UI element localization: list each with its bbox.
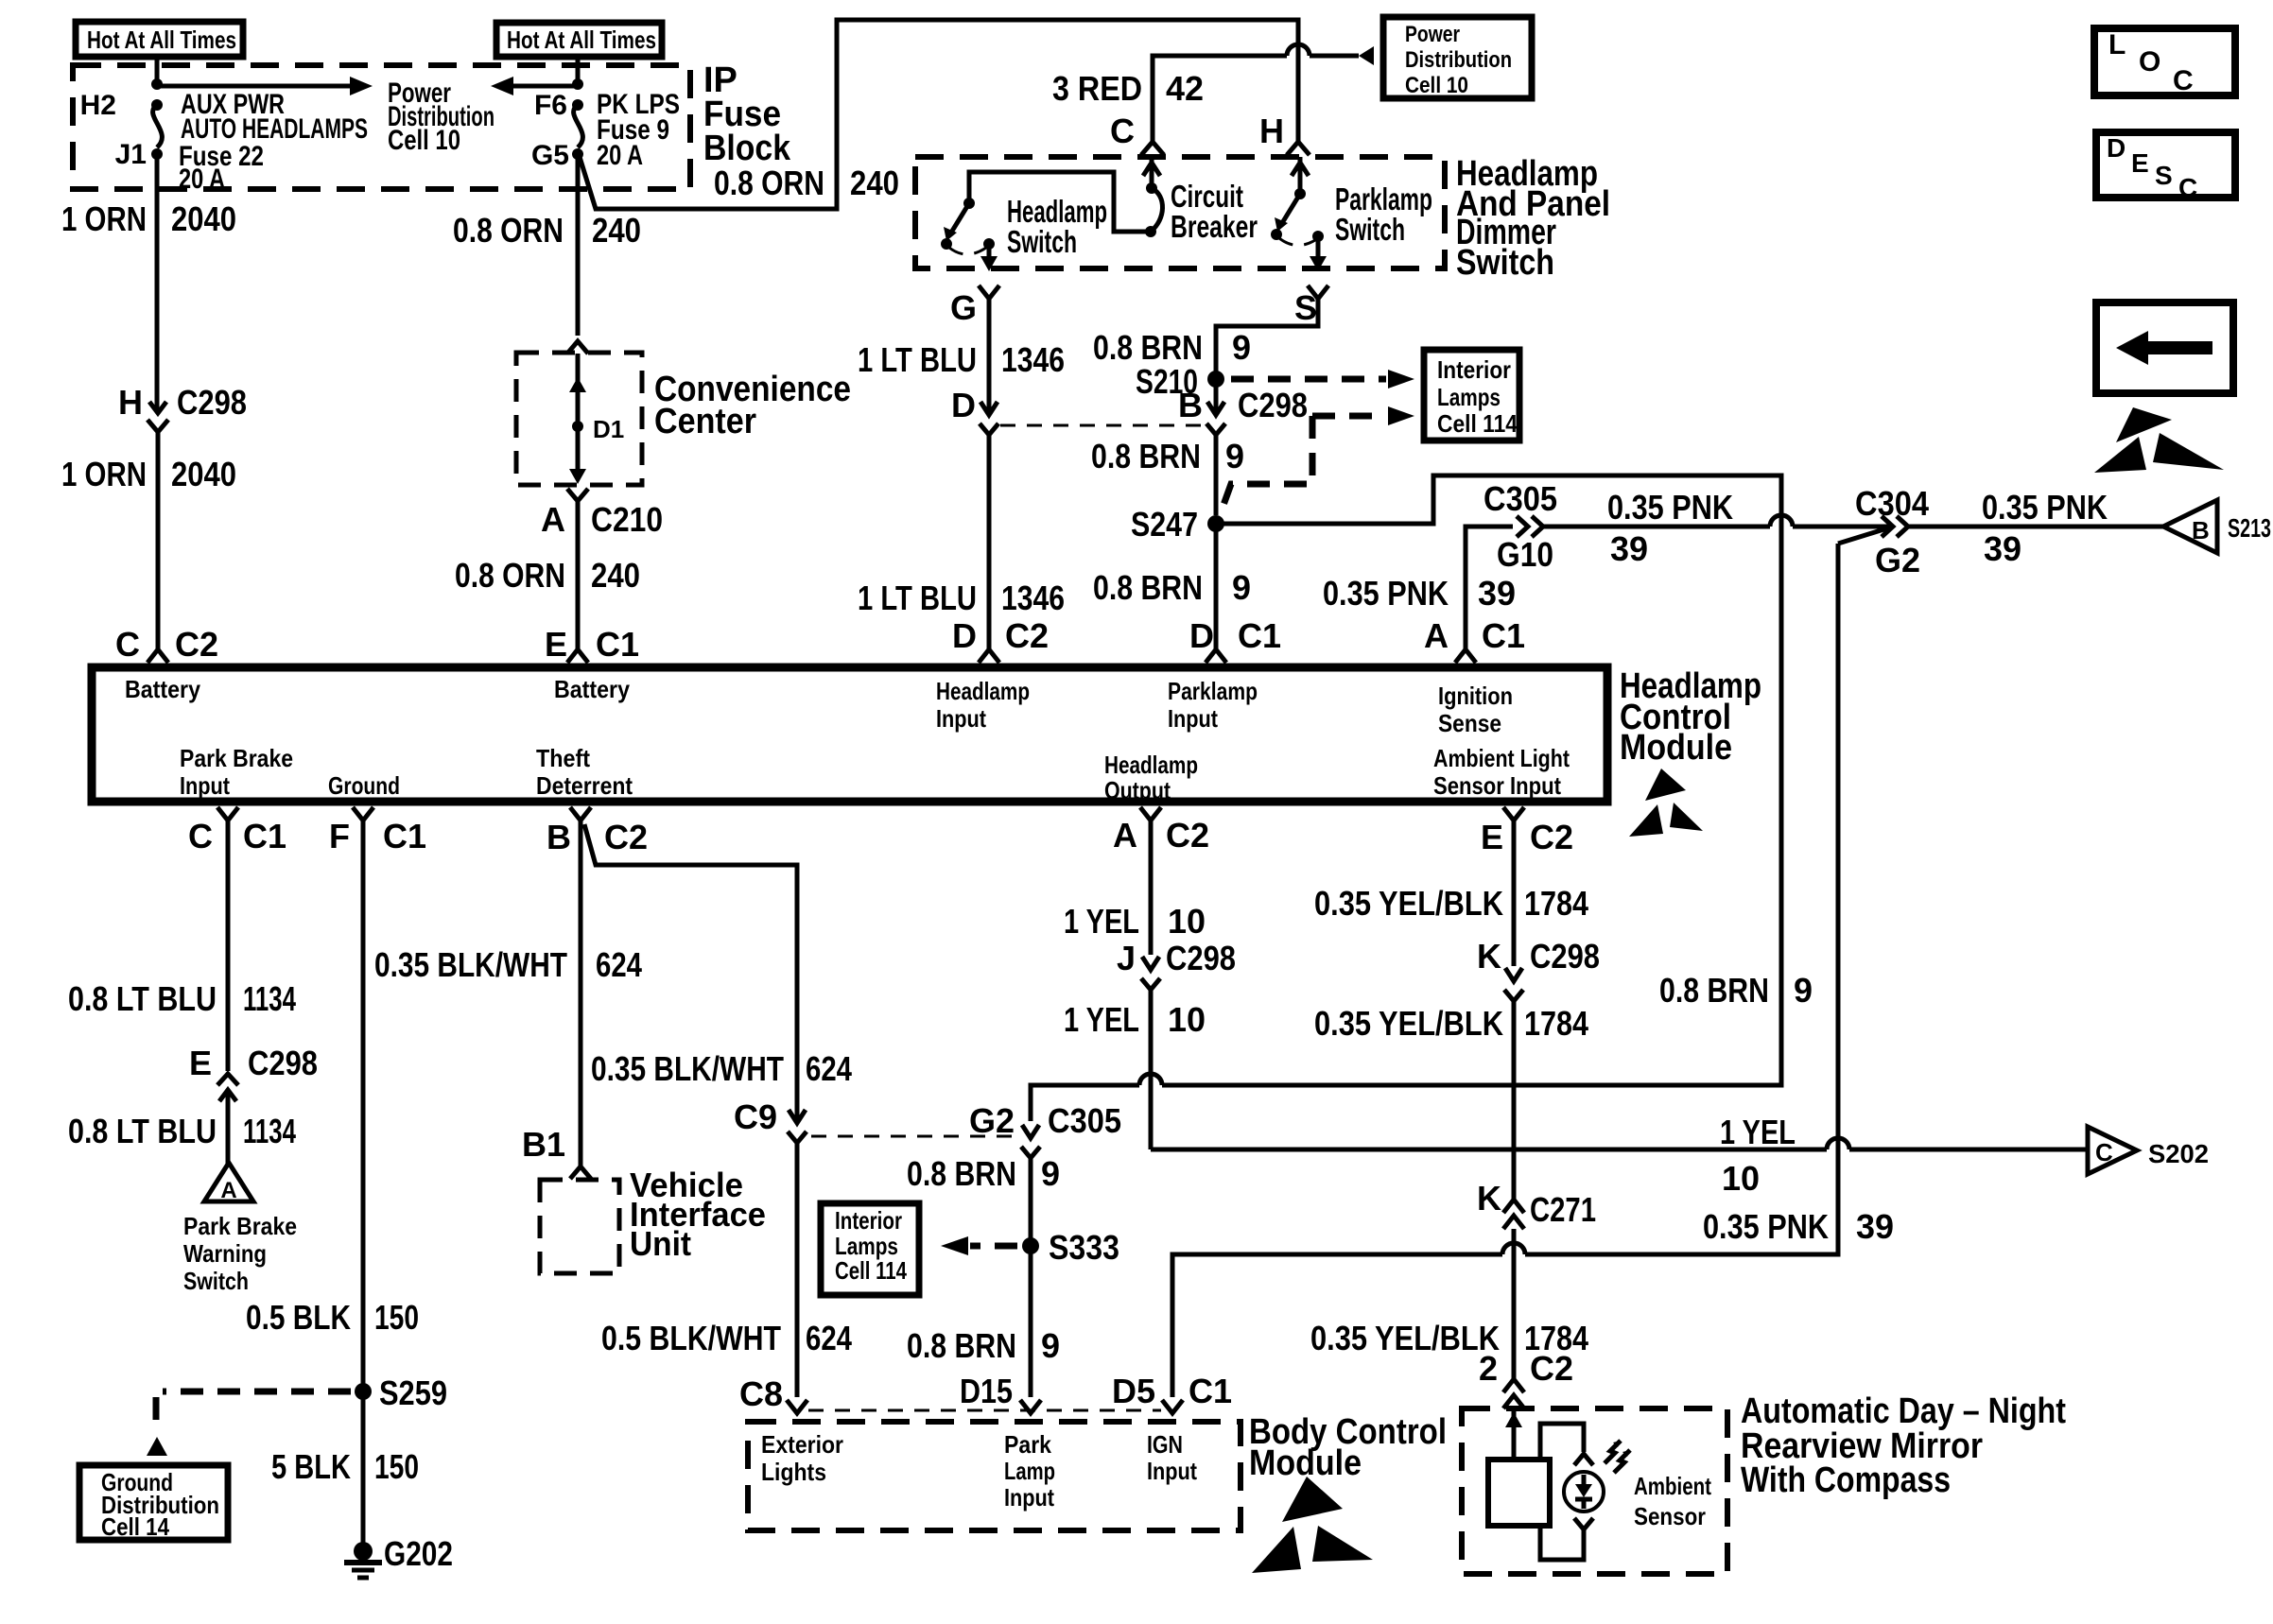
svg-text:Headlamp: Headlamp xyxy=(1104,751,1198,779)
svg-text:C1: C1 xyxy=(1238,616,1281,655)
svg-text:H: H xyxy=(118,383,143,422)
svg-text:J1: J1 xyxy=(115,139,147,170)
svg-text:20 A: 20 A xyxy=(597,140,643,171)
svg-text:9: 9 xyxy=(1794,971,1813,1010)
svg-text:G5: G5 xyxy=(531,140,569,171)
svg-text:Ground: Ground xyxy=(328,771,400,800)
svg-text:Breaker: Breaker xyxy=(1171,209,1258,244)
svg-text:0.35 BLK/WHT: 0.35 BLK/WHT xyxy=(591,1049,784,1088)
svg-text:10: 10 xyxy=(1168,902,1206,941)
svg-text:D: D xyxy=(952,616,977,655)
svg-text:1 ORN: 1 ORN xyxy=(61,455,147,493)
svg-text:Cell 14: Cell 14 xyxy=(101,1512,169,1541)
svg-text:Park Brake: Park Brake xyxy=(180,744,293,772)
svg-text:C1: C1 xyxy=(596,625,639,664)
svg-text:0.35 YEL/BLK: 0.35 YEL/BLK xyxy=(1314,1004,1503,1043)
svg-text:0.35 PNK: 0.35 PNK xyxy=(1703,1207,1829,1246)
svg-text:Input: Input xyxy=(180,771,230,800)
svg-text:Input: Input xyxy=(1168,704,1218,733)
svg-text:5 BLK: 5 BLK xyxy=(271,1447,351,1486)
svg-text:K: K xyxy=(1477,937,1501,976)
svg-text:Input: Input xyxy=(1004,1483,1054,1512)
svg-text:0.8 ORN: 0.8 ORN xyxy=(453,211,564,250)
svg-text:39: 39 xyxy=(1478,574,1516,613)
svg-text:624: 624 xyxy=(806,1049,852,1088)
svg-text:S247: S247 xyxy=(1131,505,1198,544)
svg-text:Hot At All Times: Hot At All Times xyxy=(87,26,236,54)
svg-text:G202: G202 xyxy=(384,1534,453,1573)
svg-text:Park Brake: Park Brake xyxy=(183,1212,297,1240)
svg-text:0.35 PNK: 0.35 PNK xyxy=(1607,488,1733,527)
svg-text:S213: S213 xyxy=(2228,513,2271,543)
svg-text:624: 624 xyxy=(596,945,642,984)
svg-text:Switch: Switch xyxy=(183,1267,249,1295)
svg-text:9: 9 xyxy=(1041,1154,1060,1193)
svg-text:2040: 2040 xyxy=(171,455,236,493)
svg-text:0.8 ORN: 0.8 ORN xyxy=(714,164,824,202)
svg-text:G2: G2 xyxy=(1875,541,1920,579)
svg-text:Battery: Battery xyxy=(554,675,630,703)
svg-text:0.8 ORN: 0.8 ORN xyxy=(455,556,565,595)
svg-text:C1: C1 xyxy=(383,817,426,855)
svg-text:10: 10 xyxy=(1722,1159,1760,1198)
svg-text:G: G xyxy=(950,288,977,327)
svg-text:With Compass: With Compass xyxy=(1741,1460,1951,1500)
svg-text:Sensor: Sensor xyxy=(1634,1502,1706,1530)
svg-text:0.8 BRN: 0.8 BRN xyxy=(907,1154,1016,1193)
svg-text:O: O xyxy=(2139,46,2160,78)
svg-text:J: J xyxy=(1117,939,1136,977)
svg-text:0.8 LT BLU: 0.8 LT BLU xyxy=(68,1112,217,1150)
svg-text:Distribution: Distribution xyxy=(1405,47,1512,73)
svg-text:C: C xyxy=(2173,65,2194,96)
svg-text:1 YEL: 1 YEL xyxy=(1720,1113,1796,1151)
svg-text:Deterrent: Deterrent xyxy=(536,771,633,800)
svg-text:Interior: Interior xyxy=(1437,355,1511,384)
svg-text:C304: C304 xyxy=(1855,484,1929,523)
svg-text:Input: Input xyxy=(936,704,986,733)
svg-text:9: 9 xyxy=(1232,328,1251,367)
svg-text:B: B xyxy=(1178,386,1203,424)
svg-text:Ignition: Ignition xyxy=(1438,682,1513,710)
svg-text:C298: C298 xyxy=(1166,939,1236,977)
svg-text:Park: Park xyxy=(1004,1430,1051,1459)
svg-text:Switch: Switch xyxy=(1007,224,1077,259)
svg-text:1134: 1134 xyxy=(243,1112,296,1150)
svg-text:Cell 10: Cell 10 xyxy=(1405,73,1468,98)
svg-text:0.35 PNK: 0.35 PNK xyxy=(1982,488,2108,527)
svg-text:C2: C2 xyxy=(1166,816,1209,855)
svg-text:1784: 1784 xyxy=(1524,884,1588,923)
svg-text:Cell 10: Cell 10 xyxy=(388,125,460,156)
svg-text:Sense: Sense xyxy=(1438,709,1501,737)
svg-text:IGN: IGN xyxy=(1147,1430,1183,1459)
svg-text:0.35 BLK/WHT: 0.35 BLK/WHT xyxy=(374,945,567,984)
svg-text:C9: C9 xyxy=(734,1097,777,1136)
svg-text:9: 9 xyxy=(1232,568,1251,607)
svg-text:240: 240 xyxy=(592,211,641,250)
svg-text:C: C xyxy=(2178,173,2197,202)
svg-text:C210: C210 xyxy=(591,500,663,539)
svg-text:9: 9 xyxy=(1041,1326,1060,1365)
svg-text:9: 9 xyxy=(1225,437,1244,475)
svg-text:39: 39 xyxy=(1856,1207,1894,1246)
svg-text:Output: Output xyxy=(1104,776,1171,804)
svg-text:39: 39 xyxy=(1610,529,1648,568)
svg-text:2040: 2040 xyxy=(171,199,236,238)
svg-text:H2: H2 xyxy=(80,90,116,121)
svg-text:C: C xyxy=(188,817,213,855)
svg-text:Lamps: Lamps xyxy=(1437,383,1501,411)
svg-text:1346: 1346 xyxy=(1001,340,1065,379)
svg-text:0.8 BRN: 0.8 BRN xyxy=(1091,437,1201,475)
svg-text:C298: C298 xyxy=(177,383,247,422)
svg-text:240: 240 xyxy=(850,164,899,202)
svg-text:A: A xyxy=(1424,616,1449,655)
svg-text:Power: Power xyxy=(1405,22,1460,47)
svg-text:10: 10 xyxy=(1168,1000,1206,1039)
svg-text:Sensor Input: Sensor Input xyxy=(1433,771,1561,800)
svg-text:C2: C2 xyxy=(1530,1349,1573,1388)
svg-text:D15: D15 xyxy=(960,1372,1013,1410)
svg-text:Lights: Lights xyxy=(761,1458,826,1486)
svg-text:C305: C305 xyxy=(1484,479,1557,518)
svg-text:Cell 114: Cell 114 xyxy=(1437,409,1518,438)
svg-text:0.35 YEL/BLK: 0.35 YEL/BLK xyxy=(1314,884,1503,923)
svg-text:D: D xyxy=(2107,133,2126,163)
svg-text:Headlamp: Headlamp xyxy=(936,677,1030,705)
svg-text:42: 42 xyxy=(1166,69,1204,108)
svg-text:K: K xyxy=(1477,1179,1501,1218)
svg-text:Automatic Day – Night: Automatic Day – Night xyxy=(1741,1391,2066,1431)
svg-text:Switch: Switch xyxy=(1335,212,1405,247)
svg-text:1784: 1784 xyxy=(1524,1004,1588,1043)
svg-text:1 YEL: 1 YEL xyxy=(1064,1000,1139,1039)
svg-text:C: C xyxy=(2095,1138,2113,1166)
svg-text:C: C xyxy=(115,625,140,664)
svg-text:Ambient Light: Ambient Light xyxy=(1433,744,1570,772)
svg-text:1 ORN: 1 ORN xyxy=(61,199,147,238)
svg-text:C8: C8 xyxy=(739,1374,783,1413)
svg-text:2: 2 xyxy=(1479,1349,1498,1388)
svg-text:C1: C1 xyxy=(1189,1372,1232,1410)
svg-text:Module: Module xyxy=(1249,1443,1362,1483)
svg-text:1 YEL: 1 YEL xyxy=(1064,902,1139,941)
svg-text:E: E xyxy=(2131,148,2149,178)
svg-text:F6: F6 xyxy=(534,90,567,121)
svg-text:Warning: Warning xyxy=(183,1239,267,1268)
svg-text:A: A xyxy=(1113,816,1137,855)
svg-text:624: 624 xyxy=(806,1319,852,1357)
svg-text:D1: D1 xyxy=(593,415,624,443)
svg-text:C305: C305 xyxy=(1048,1101,1121,1140)
svg-text:E: E xyxy=(189,1044,212,1082)
svg-text:S333: S333 xyxy=(1049,1228,1119,1267)
svg-text:C2: C2 xyxy=(1005,616,1049,655)
svg-text:C2: C2 xyxy=(1530,818,1573,856)
svg-text:C298: C298 xyxy=(1530,937,1600,976)
svg-text:0.35 PNK: 0.35 PNK xyxy=(1323,574,1449,613)
svg-text:S259: S259 xyxy=(379,1373,447,1412)
svg-text:Switch: Switch xyxy=(1456,243,1554,283)
svg-text:0.5 BLK/WHT: 0.5 BLK/WHT xyxy=(601,1319,781,1357)
svg-text:39: 39 xyxy=(1984,529,2021,568)
svg-text:20 A: 20 A xyxy=(179,164,225,195)
svg-text:C298: C298 xyxy=(1238,386,1308,424)
svg-text:1134: 1134 xyxy=(243,979,296,1018)
svg-text:Parklamp: Parklamp xyxy=(1168,677,1258,705)
svg-text:150: 150 xyxy=(374,1298,419,1337)
svg-text:H: H xyxy=(1259,112,1284,150)
svg-text:L: L xyxy=(2108,29,2126,60)
svg-text:B: B xyxy=(2192,516,2210,544)
svg-text:1 LT BLU: 1 LT BLU xyxy=(858,340,977,379)
svg-text:Block: Block xyxy=(703,129,791,168)
svg-text:C2: C2 xyxy=(175,625,218,664)
svg-text:Exterior: Exterior xyxy=(761,1430,843,1459)
svg-text:D5: D5 xyxy=(1112,1372,1155,1410)
svg-text:D: D xyxy=(951,386,976,424)
svg-text:1 LT BLU: 1 LT BLU xyxy=(858,579,977,617)
svg-text:G10: G10 xyxy=(1497,535,1553,574)
svg-text:Cell 114: Cell 114 xyxy=(835,1256,907,1285)
svg-text:0.8 LT BLU: 0.8 LT BLU xyxy=(68,979,217,1018)
svg-text:0.8 BRN: 0.8 BRN xyxy=(1093,328,1203,367)
svg-text:Interior: Interior xyxy=(835,1206,902,1235)
svg-text:A: A xyxy=(220,1178,236,1203)
svg-text:B: B xyxy=(547,818,571,856)
svg-text:Battery: Battery xyxy=(125,675,200,703)
svg-text:Theft: Theft xyxy=(536,744,590,772)
svg-text:Center: Center xyxy=(654,402,756,441)
svg-text:C298: C298 xyxy=(248,1044,318,1082)
svg-text:E: E xyxy=(545,625,567,664)
svg-text:Unit: Unit xyxy=(630,1224,691,1263)
svg-text:Hot At All Times: Hot At All Times xyxy=(507,26,656,54)
svg-text:A: A xyxy=(541,500,565,539)
svg-text:D: D xyxy=(1189,616,1214,655)
svg-text:C2: C2 xyxy=(604,818,648,856)
svg-text:Input: Input xyxy=(1147,1457,1197,1485)
svg-text:G2: G2 xyxy=(969,1101,1015,1140)
svg-text:S: S xyxy=(2155,161,2173,190)
svg-text:C271: C271 xyxy=(1530,1190,1596,1229)
svg-text:C1: C1 xyxy=(1482,616,1525,655)
svg-text:B1: B1 xyxy=(522,1125,565,1164)
svg-text:0.8 BRN: 0.8 BRN xyxy=(907,1326,1016,1365)
svg-text:0.35 YEL/BLK: 0.35 YEL/BLK xyxy=(1310,1319,1500,1357)
svg-text:1346: 1346 xyxy=(1001,579,1065,617)
svg-text:E: E xyxy=(1481,818,1503,856)
svg-text:Module: Module xyxy=(1620,728,1732,768)
svg-text:C: C xyxy=(1110,112,1135,150)
svg-text:3 RED: 3 RED xyxy=(1052,69,1142,108)
svg-text:C1: C1 xyxy=(243,817,286,855)
svg-text:Ambient: Ambient xyxy=(1634,1472,1711,1500)
svg-text:Lamp: Lamp xyxy=(1004,1457,1055,1485)
svg-text:0.8 BRN: 0.8 BRN xyxy=(1093,568,1203,607)
svg-text:F: F xyxy=(329,817,350,855)
svg-text:S202: S202 xyxy=(2148,1139,2209,1168)
svg-text:240: 240 xyxy=(591,556,640,595)
svg-text:0.5 BLK: 0.5 BLK xyxy=(246,1298,351,1337)
svg-text:0.8 BRN: 0.8 BRN xyxy=(1659,971,1769,1010)
svg-text:150: 150 xyxy=(374,1447,419,1486)
